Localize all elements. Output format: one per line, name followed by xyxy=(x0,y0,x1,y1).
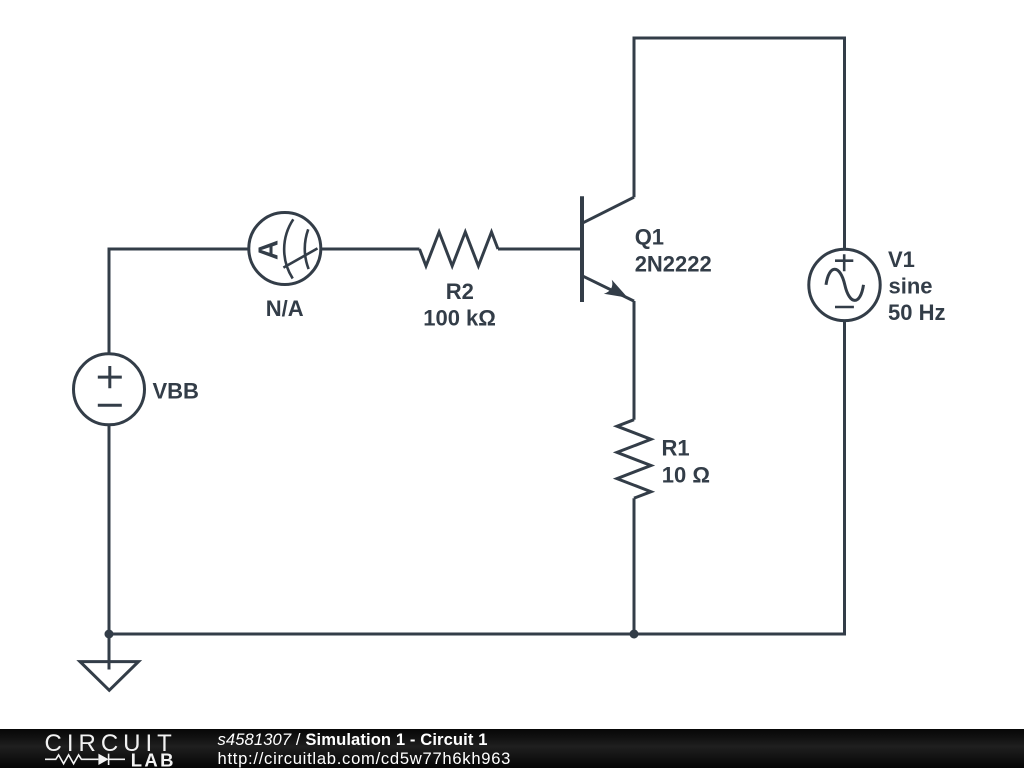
footer bar xyxy=(0,729,1024,768)
node: emitter-leg bottom junction xyxy=(630,630,639,639)
resistor R2 xyxy=(420,232,499,266)
label VBB xyxy=(153,379,199,404)
svg-text:Q1: Q1 xyxy=(635,225,664,250)
footer title text xyxy=(218,730,512,769)
wire: bottom rail xyxy=(109,633,846,636)
wire: Q1 emitter down to resistor R1 xyxy=(633,301,636,420)
svg-text:LAB: LAB xyxy=(131,750,176,768)
wire: ground stub xyxy=(108,634,111,670)
wire: V1 bottom down to bottom rail xyxy=(843,321,846,636)
source V1 (sine) xyxy=(809,249,880,320)
svg-text:N/A: N/A xyxy=(266,296,304,321)
transistor Q1 xyxy=(582,196,634,302)
wire: resistor R2 to Q1 base xyxy=(498,248,580,251)
label V1 sine 50 Hz xyxy=(888,247,945,325)
wire: ammeter to resistor R2 xyxy=(321,248,420,251)
svg-text:50 Hz: 50 Hz xyxy=(888,300,945,325)
resistor R1 xyxy=(617,420,651,499)
label Q1 2N2222 xyxy=(635,225,712,277)
label R2 100 kOhm xyxy=(423,279,496,331)
svg-text:R1: R1 xyxy=(662,435,690,460)
svg-text:sine: sine xyxy=(889,273,933,298)
wire: VBB minus terminal down to bottom rail xyxy=(108,425,111,634)
CircuitLab logo xyxy=(0,729,210,768)
svg-text:V1: V1 xyxy=(888,247,915,272)
svg-text:100 kΩ: 100 kΩ xyxy=(423,305,496,330)
svg-text:VBB: VBB xyxy=(153,379,199,404)
wire: resistor R1 to bottom rail junction xyxy=(633,498,636,634)
label N/A xyxy=(266,296,304,321)
label R1 10 Ohm xyxy=(662,435,711,487)
svg-text:R2: R2 xyxy=(446,279,474,304)
ground xyxy=(80,662,139,691)
voltage source VBB xyxy=(74,354,145,425)
node: bottom-left junction xyxy=(105,630,114,639)
wire: VBB plus terminal up and right to ammeter xyxy=(108,248,249,354)
wire: top rail to V1 top xyxy=(633,37,845,250)
svg-text:2N2222: 2N2222 xyxy=(635,251,712,276)
wire: Q1 collector up to top rail xyxy=(633,40,636,198)
svg-text:A: A xyxy=(252,240,283,260)
svg-text:10 Ω: 10 Ω xyxy=(662,462,710,487)
ammeter (A) xyxy=(249,213,321,285)
